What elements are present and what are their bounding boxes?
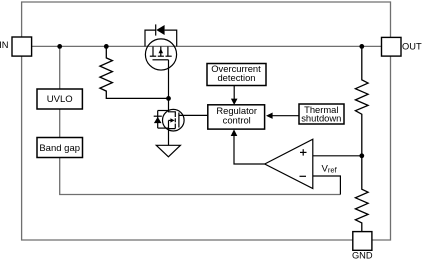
block UVLO — [37, 89, 82, 109]
arrow into Regulator control top — [231, 99, 238, 105]
node rail-OUT dot — [359, 44, 364, 49]
wire: rail to UVLO — [59, 46, 61, 89]
svg-text:detection: detection — [217, 72, 255, 83]
node rail-UVLO dot — [57, 44, 62, 49]
arrow into Regulator control bottom — [231, 129, 238, 136]
wire: op-amp output to Regulator control — [234, 135, 265, 165]
wire: bottom border IN bottom to GND left — [22, 56, 353, 240]
block Regulator control — [208, 105, 265, 129]
resistor R2 (OUT to feedback node) — [355, 46, 368, 155]
resistor R3 (feedback node to GND) — [355, 156, 368, 232]
wire: main rail IN to OUT — [32, 45, 382, 47]
pin GND — [353, 232, 372, 251]
wire: Q2 gate to Regulator control — [179, 114, 208, 116]
svg-text:GND: GND — [352, 251, 373, 261]
wire: Thermal shutdown to Regulator control — [272, 115, 300, 117]
svg-text:control: control — [223, 115, 251, 126]
pin OUT — [382, 37, 402, 56]
wire: top border rail IN top to OUT top — [22, 2, 391, 37]
transistor Q1 pass PMOS circle — [145, 39, 176, 70]
svg-text:Band gap: Band gap — [39, 143, 80, 154]
svg-text:Vref: Vref — [322, 163, 338, 174]
svg-text:IN: IN — [0, 40, 9, 50]
diode D2 body diode of Q2 — [154, 111, 169, 129]
wire: Band gap to Vref node — [60, 158, 341, 195]
diode D1 body diode of Q1 — [145, 24, 177, 46]
ground — [156, 145, 180, 157]
block Thermal shutdown — [299, 104, 344, 124]
block Overcurrent detection — [207, 64, 266, 86]
op-amp U1 — [265, 139, 313, 188]
transistor Q1 symbol — [150, 46, 172, 59]
node feedback dot — [359, 153, 364, 158]
wire: UVLO to Band gap — [59, 109, 61, 138]
block Band gap — [37, 138, 83, 158]
svg-text:shutdown: shutdown — [301, 113, 341, 124]
wire: op-amp - input to Vref wire — [313, 176, 341, 195]
resistor R1 (rail to gate node) — [100, 46, 169, 98]
arrow into Regulator control right — [266, 113, 273, 119]
svg-text:OUT: OUT — [402, 41, 422, 51]
transistor Q2 driver NMOS circle — [163, 109, 185, 131]
wire: op-amp + input to feedback node — [313, 155, 362, 157]
wire: OUT bottom to GND right — [372, 56, 391, 240]
svg-text:UVLO: UVLO — [47, 94, 73, 105]
node gate junction dot — [166, 96, 171, 101]
pin IN — [12, 37, 32, 56]
transistor Q2 symbol — [169, 98, 179, 145]
wire: Overcurrent to Regulator control — [233, 86, 235, 100]
transistor Q1 bulk arrow — [159, 49, 164, 54]
wire: Q1 gate down to gate node — [168, 60, 170, 99]
node rail-R1 dot — [104, 44, 109, 49]
transistor Q2 bulk arrow — [170, 118, 174, 122]
